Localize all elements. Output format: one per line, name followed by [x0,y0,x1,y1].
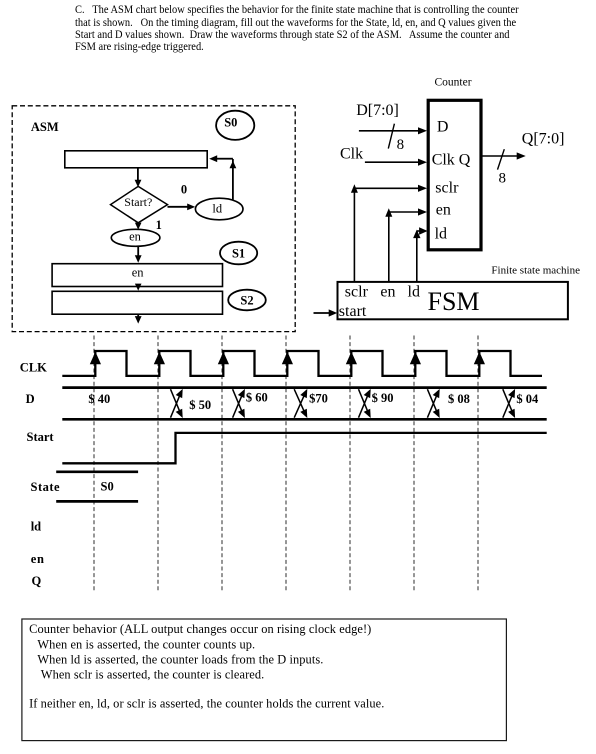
Start waveform [62,433,546,463]
svg-text:Finite state machine: Finite state machine [491,264,580,276]
svg-text:Clk: Clk [340,145,363,162]
wire start input to FSM [314,309,338,316]
wire D bus input [359,127,427,134]
svg-text:en: en [129,229,142,243]
wire from S0 box bottom to decision diamond [135,168,142,187]
D bus transition X 2 [233,389,245,418]
CLK waveform [62,351,542,376]
CLK rising edge arrow 1 [90,352,101,365]
svg-text:Q: Q [32,574,42,588]
FSM block [338,282,568,319]
wire en from FSM to counter [385,208,427,281]
svg-text:S0: S0 [224,116,237,130]
D bus transition X 6 [503,389,515,418]
bus width slash on Q wire [498,149,505,169]
wire diamond right vertex to ld oval [168,204,196,211]
svg-text:Counter behavior (ALL output c: Counter behavior (ALL output changes occ… [29,622,371,636]
D bus bottom rail [62,418,546,421]
wire diamond bottom to en oval [135,223,142,230]
wire ld from FSM to counter [413,227,428,281]
counter block U1 [428,100,481,250]
svg-text:en: en [132,265,145,279]
svg-text:CLK: CLK [20,360,47,374]
svg-text:$ 60: $ 60 [246,391,268,405]
clock edge gridline 2 [157,336,159,593]
D bus top rail [62,386,546,389]
svg-text:ld: ld [408,284,420,301]
clock edge gridline 7 [477,336,479,593]
CLK rising edge arrow 7 [474,352,485,365]
svg-text:$ 90: $ 90 [372,391,394,405]
svg-text:sclr: sclr [435,179,459,196]
svg-text:start: start [339,303,367,320]
svg-text:1: 1 [156,218,162,232]
problem statement paragraph [75,4,537,53]
svg-text:D: D [437,119,449,136]
svg-text:Counter: Counter [435,76,472,88]
wire Clk input [365,159,427,166]
clock edge gridline 6 [413,336,415,593]
counter behavior note box [22,619,507,741]
svg-text:If neither en, ld, or sclr is: If neither en, ld, or sclr is asserted, … [29,696,384,710]
wire state box S1 to state box S2 [135,284,142,291]
svg-text:When sclr is asserted, the cou: When sclr is asserted, the counter is cl… [41,667,265,681]
CLK rising edge arrow 6 [410,352,421,365]
bus width slash on D wire [388,124,394,149]
clock edge gridline 4 [285,336,287,593]
svg-text:$ 04: $ 04 [516,392,539,406]
svg-text:State: State [31,480,61,494]
decision diamond Start? [111,186,168,222]
conditional output oval ld [195,198,243,220]
svg-text:When ld is asserted, the count: When ld is asserted, the counter loads f… [37,652,323,666]
CLK rising edge arrow 3 [218,352,229,365]
wire en oval to state box S1 [135,246,142,262]
svg-text:Clk Q: Clk Q [432,151,471,168]
svg-text:8: 8 [397,137,405,153]
CLK rising edge arrow 4 [282,352,293,365]
state box S2 (empty) [52,291,222,314]
svg-text:sclr: sclr [345,284,369,301]
state oval S0 [216,111,254,140]
wire sclr from FSM to counter [351,184,427,282]
svg-text:ld: ld [212,202,222,216]
state box S1 with en action [52,264,222,287]
clock edge gridline 3 [221,336,223,593]
svg-text:ASM: ASM [31,120,59,134]
clock edge gridline 5 [349,336,351,593]
svg-text:Start?: Start? [124,195,152,209]
state oval S1 [220,242,257,265]
svg-text:$ 08: $ 08 [448,392,470,406]
svg-text:$ 50: $ 50 [189,398,211,412]
svg-text:en: en [380,284,395,301]
svg-text:D: D [26,392,35,406]
D bus transition X 3 [294,389,307,418]
svg-text:$ 40: $ 40 [88,392,110,406]
svg-text:S2: S2 [240,293,253,307]
exit wire below state box S2 [135,314,142,323]
svg-text:FSM: FSM [428,287,480,316]
svg-text:0: 0 [181,183,187,197]
D bus transition X 4 [359,389,371,418]
svg-text:Start: Start [27,430,55,444]
conditional output oval en [111,229,160,246]
CLK rising edge arrow 5 [346,352,357,365]
svg-text:S1: S1 [232,246,245,260]
D bus transition X 5 [427,389,439,418]
state box S0 (empty action box) [65,151,207,168]
CLK rising edge arrow 2 [154,352,165,365]
state oval S2 [228,290,266,311]
ASM chart dashed boundary box [12,106,295,332]
svg-text:ld: ld [435,226,447,243]
svg-text:When en is asserted, the count: When en is asserted, the counter counts … [37,638,255,652]
D bus transition X 1 [171,389,183,418]
State bus top rail [56,470,138,473]
svg-text:8: 8 [499,170,507,186]
clock edge gridline 1 [93,336,95,593]
State bus bottom rail [56,500,138,503]
svg-text:en: en [436,201,451,218]
svg-text:$70: $70 [309,392,328,406]
wire Q bus output [483,152,526,159]
svg-text:D[7:0]: D[7:0] [356,102,399,119]
svg-text:en: en [31,552,45,566]
wire from ld oval top up toward S0 box [230,159,237,200]
svg-text:Q[7:0]: Q[7:0] [522,130,565,147]
svg-text:ld: ld [31,519,41,533]
svg-text:S0: S0 [101,479,114,493]
wire returning left into S0 box right side [209,155,233,162]
